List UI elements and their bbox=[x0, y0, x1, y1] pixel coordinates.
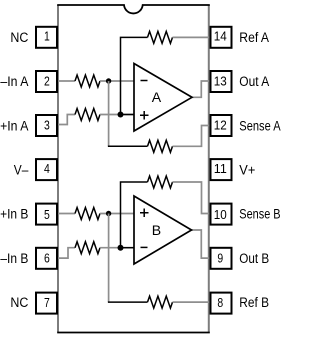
pin 1 box bbox=[36, 27, 57, 48]
svg-text:5: 5 bbox=[44, 207, 50, 222]
wire op-amp A output to pin13 Out A bbox=[192, 81, 210, 97]
wire pin3 +In A jog to R2 bbox=[58, 115, 75, 125]
pin 11 box bbox=[211, 159, 232, 180]
svg-text:1: 1 bbox=[44, 28, 50, 43]
wire lead into R4 bbox=[108, 145, 148, 147]
wire node A+ riser to R3 bbox=[121, 37, 148, 114]
svg-text:+In B: +In B bbox=[0, 206, 28, 221]
junction dot node B- bbox=[118, 245, 124, 251]
svg-text:B: B bbox=[152, 222, 161, 238]
pin 4 box bbox=[36, 159, 57, 180]
svg-text:NC: NC bbox=[10, 295, 28, 310]
svg-text:Ref A: Ref A bbox=[239, 30, 269, 45]
svg-text:V–: V– bbox=[14, 162, 29, 177]
svg-text:10: 10 bbox=[214, 207, 227, 222]
svg-text:NC: NC bbox=[10, 30, 28, 45]
wire R1 to op-amp A inverting input bbox=[100, 80, 134, 82]
wire node B- to op-amp B inverting input (black stub) bbox=[121, 247, 135, 249]
pin 7 box bbox=[36, 293, 57, 314]
svg-text:Out A: Out A bbox=[239, 74, 269, 89]
wire lead into R8 bbox=[108, 301, 148, 303]
svg-text:Sense B: Sense B bbox=[239, 206, 280, 221]
resistor R8 (Ref B feedback) bbox=[148, 296, 173, 308]
svg-text:Sense A: Sense A bbox=[239, 118, 280, 133]
resistor R7 (Sense B feedback) bbox=[148, 176, 173, 188]
pin 12 box bbox=[211, 115, 232, 136]
wire node A- drop to R4 bbox=[108, 81, 110, 146]
resistor R6 (-In B) bbox=[75, 242, 100, 254]
wire R5 to op-amp B non-inverting input bbox=[100, 213, 134, 215]
wire R4 to pin12 Sense A bbox=[173, 126, 210, 147]
svg-text:+In A: +In A bbox=[0, 118, 28, 133]
pin 10 box bbox=[211, 204, 232, 225]
svg-text:11: 11 bbox=[214, 161, 227, 176]
pin 2 box bbox=[36, 71, 57, 92]
op-amp U1B triangle bbox=[134, 196, 192, 264]
pin 8 box bbox=[211, 293, 232, 314]
op-amp B minus sign bbox=[141, 246, 148, 248]
resistor R3 (Ref A feedback) bbox=[148, 31, 173, 43]
wire R8 to pin8 Ref B bbox=[173, 301, 210, 303]
wire node B- riser to R7 bbox=[121, 182, 148, 248]
svg-text:8: 8 bbox=[217, 295, 223, 310]
pin 14 box bbox=[211, 27, 232, 48]
resistor R2 (+In A) bbox=[75, 109, 100, 121]
wire node B+ drop to R8 bbox=[108, 214, 110, 303]
op-amp B plus sign bbox=[140, 209, 149, 218]
wire R7 to pin10 Sense B bbox=[173, 182, 210, 214]
svg-text:A: A bbox=[152, 89, 162, 105]
IC body bottom edge bbox=[57, 332, 210, 334]
wire node A+ to op-amp A non-inverting input (black stub) bbox=[121, 114, 135, 116]
svg-text:–In B: –In B bbox=[0, 251, 28, 266]
svg-text:4: 4 bbox=[44, 161, 50, 176]
svg-text:Ref B: Ref B bbox=[239, 295, 269, 310]
svg-text:12: 12 bbox=[214, 117, 227, 132]
IC body top edge with notch bbox=[57, 5, 210, 13]
junction dot node B+ bbox=[106, 211, 111, 216]
wire pin6 -In B jog to R6 bbox=[58, 248, 75, 258]
resistor R5 (+In B) bbox=[75, 208, 100, 220]
wire pin5 +In B to R5 bbox=[58, 213, 75, 215]
svg-text:13: 13 bbox=[214, 73, 227, 88]
svg-text:V+: V+ bbox=[239, 162, 255, 177]
op-amp U1A triangle bbox=[134, 64, 192, 132]
op-amp A minus sign bbox=[141, 80, 148, 82]
svg-text:3: 3 bbox=[44, 117, 50, 132]
svg-text:9: 9 bbox=[217, 250, 223, 265]
svg-text:6: 6 bbox=[44, 250, 50, 265]
pin 6 box bbox=[36, 248, 57, 269]
resistor R4 (Sense A feedback) bbox=[148, 140, 173, 152]
wire op-amp B output to pin9 Out B bbox=[192, 230, 210, 258]
junction dot node A+ bbox=[118, 112, 124, 118]
pin 3 box bbox=[36, 115, 57, 136]
op-amp A plus sign bbox=[140, 111, 149, 120]
pin 13 box bbox=[211, 71, 232, 92]
wire R6 to op-amp B inverting input bbox=[100, 247, 134, 249]
IC body right edge bbox=[208, 5, 210, 333]
wire R3 to pin14 Ref A bbox=[173, 36, 210, 38]
svg-text:14: 14 bbox=[214, 28, 227, 43]
junction dot node A- bbox=[106, 78, 111, 83]
pin 9 box bbox=[211, 248, 232, 269]
IC body left edge bbox=[57, 5, 59, 333]
svg-text:Out B: Out B bbox=[239, 251, 269, 266]
wire pin2 -In A to R1 bbox=[58, 80, 75, 82]
svg-text:–In A: –In A bbox=[0, 74, 28, 89]
resistor R1 (-In A) bbox=[75, 75, 100, 87]
pin 5 box bbox=[36, 204, 57, 225]
svg-text:2: 2 bbox=[44, 73, 50, 88]
wire R2 to op-amp A non-inverting input bbox=[100, 114, 134, 116]
svg-text:7: 7 bbox=[44, 295, 50, 310]
